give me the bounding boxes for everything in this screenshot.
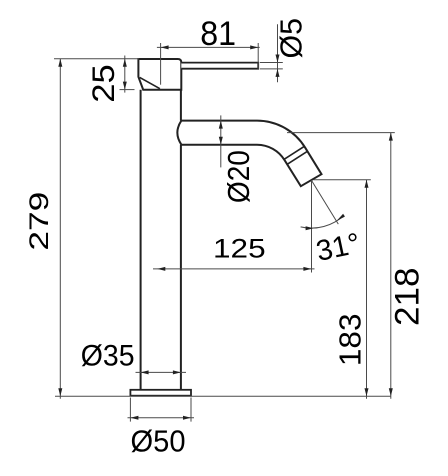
angle arc (301, 215, 345, 228)
dimension Ø50 line (128, 417, 195, 419)
dimension Ø35 arrow left (141, 370, 149, 374)
dimension 218 arrow bottom (389, 388, 393, 396)
dimension Ø5 line (277, 24, 279, 82)
dimension Ø50 arrow right (183, 416, 191, 420)
base flange (130, 390, 191, 396)
dimension 81 right extension line (257, 43, 259, 69)
lever diagonal (140, 77, 160, 88)
dimension 218 line (390, 133, 392, 399)
svg-text:218: 218 (389, 267, 427, 326)
dimension 25 arrow top (123, 59, 127, 67)
dimension Ø20 arrow bottom (219, 137, 223, 145)
dimension 218 arrow top (389, 133, 393, 141)
dimension 183 arrow bottom (365, 388, 369, 396)
aerator band line 1 (284, 146, 305, 159)
dimension Ø20 line (220, 115, 222, 167)
dimension 125 arrow right (303, 267, 311, 271)
dimension 279 line (59, 59, 61, 399)
dimension 183 line (366, 180, 368, 399)
angle vertex vertical line (311, 180, 313, 272)
svg-text:81: 81 (200, 15, 236, 53)
mounting baseline (55, 395, 391, 397)
aerator band line 2 (287, 151, 307, 164)
dimension 81 arrow left (161, 45, 169, 49)
body tube left edge (140, 90, 142, 390)
dimension 25 line (124, 56, 126, 93)
dimension 218 extension line (287, 132, 395, 134)
dimension Ø50 arrow left (130, 416, 138, 420)
dimension Ø35 arrow right (173, 370, 181, 374)
dimension Ø50 extension line left (129, 398, 131, 422)
spout outline (177, 121, 321, 187)
dimension 125 line (153, 268, 315, 270)
dimension 25 bottom extension line (120, 89, 135, 91)
angle axis extension line (311, 180, 338, 224)
svg-text:183: 183 (332, 313, 367, 366)
svg-text:Ø50: Ø50 (131, 424, 186, 459)
svg-text:279: 279 (24, 192, 54, 251)
dimension Ø50 extension line right (190, 398, 192, 422)
svg-text:Ø5: Ø5 (274, 18, 309, 59)
svg-text:25: 25 (85, 64, 121, 103)
dimension 183 arrow top (365, 180, 369, 188)
svg-text:125: 125 (213, 234, 266, 264)
dimension 183 extension line (314, 179, 371, 181)
dimension 81 arrow right (250, 45, 258, 49)
dimension 125 arrow left (157, 267, 165, 271)
svg-text:Ø20: Ø20 (221, 150, 256, 203)
dimension 81 left extension line (160, 43, 162, 85)
angle arrow left (306, 226, 314, 230)
dimension 279 arrow bottom (58, 388, 62, 396)
dimension Ø35 line (136, 371, 187, 373)
body tube right edge lower (180, 145, 182, 390)
faucet head block (138, 59, 181, 90)
dimension 81 line (157, 46, 260, 48)
dimension Ø5 extension line top (260, 62, 283, 64)
dimension Ø5 extension line bottom (260, 68, 283, 70)
top extension line (head top level) (54, 58, 139, 60)
body tube right edge upper (180, 90, 182, 121)
angle arrow right (337, 214, 345, 221)
svg-text:Ø35: Ø35 (81, 340, 135, 373)
dimension Ø20 arrow top (219, 121, 223, 129)
dimension 25 arrow bottom (123, 82, 127, 90)
dimension Ø5 arrow top (276, 55, 280, 63)
dimension Ø5 arrow bottom (276, 69, 280, 77)
lever handle rod (181, 63, 258, 69)
dimension 279 arrow top (58, 59, 62, 67)
